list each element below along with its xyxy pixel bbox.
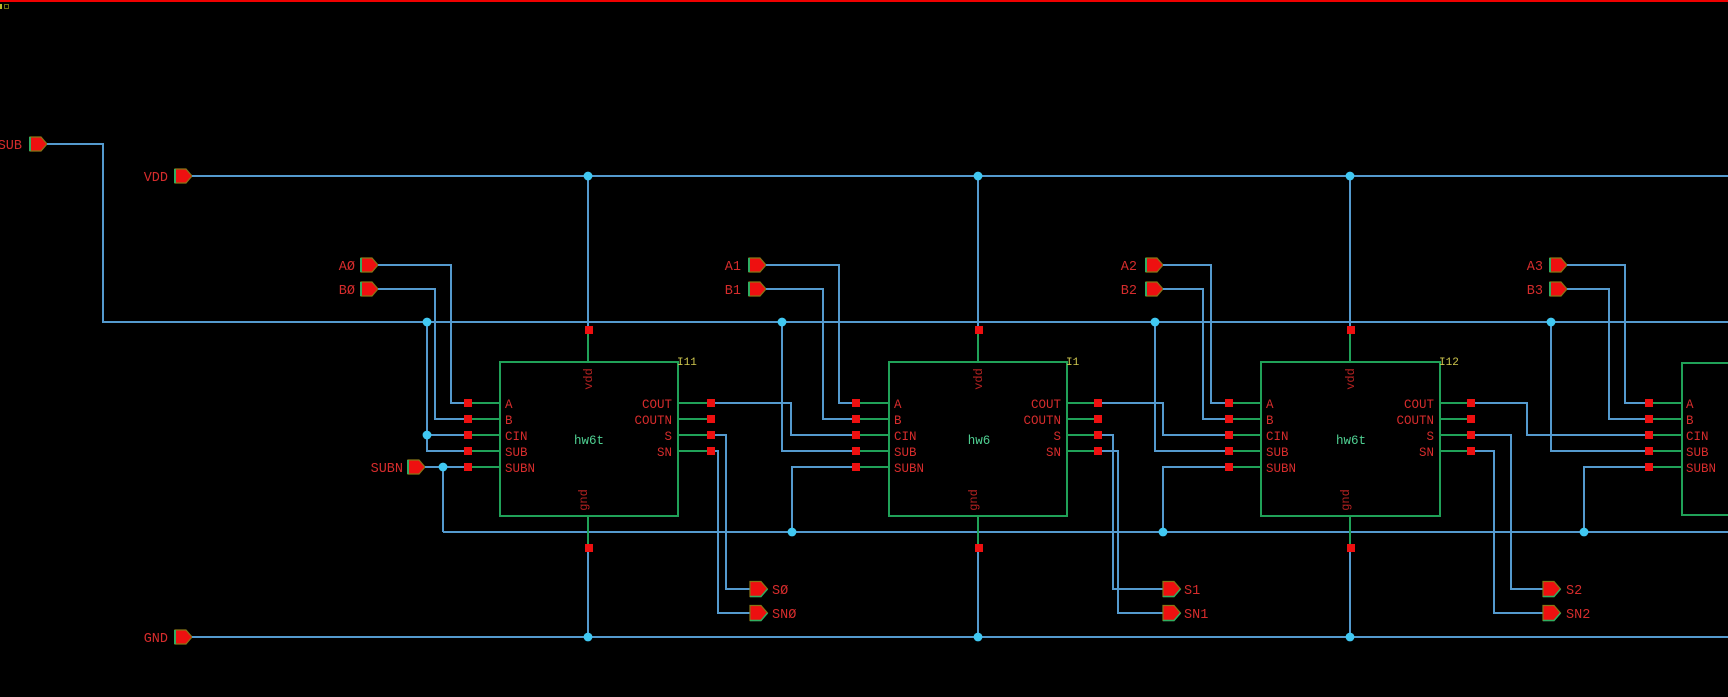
- wire net B2 to cell 3 pin B: [1163, 288, 1228, 420]
- svg-text:COUTN: COUTN: [1396, 414, 1434, 428]
- wire gnd of cell 3 to GND rail: [1349, 552, 1351, 637]
- wire SUB rail: [102, 321, 1728, 323]
- pin square vdd of I12: [1347, 326, 1355, 334]
- cell I11 (hw6t): [467, 334, 710, 545]
- svg-text:gnd: gnd: [1339, 489, 1353, 511]
- svg-text:S: S: [1426, 430, 1434, 444]
- svg-text:COUT: COUT: [642, 398, 673, 412]
- input port AØ: [339, 258, 378, 275]
- wire net A2 to cell 3 pin A: [1163, 264, 1228, 404]
- pin squares A,B,CIN,SUB,SUBN of I13: [1645, 399, 1653, 471]
- svg-text:vdd: vdd: [972, 368, 986, 390]
- instance label I11: [677, 357, 697, 369]
- svg-text:SN1: SN1: [1184, 608, 1208, 623]
- svg-text:A3: A3: [1527, 260, 1543, 275]
- svg-text:I11: I11: [677, 357, 697, 369]
- pin squares COUT,COUTN,S,SN of I1: [1094, 399, 1102, 455]
- svg-text:CIN: CIN: [894, 430, 917, 444]
- junction on GND rail cell 3: [1346, 633, 1355, 642]
- junction on SUB rail cell 3: [1151, 318, 1160, 327]
- pin square vdd of I11: [585, 326, 593, 334]
- wire SUBN rail to cell 4 pin SUBN: [1583, 466, 1648, 533]
- svg-text:COUTN: COUTN: [1023, 414, 1061, 428]
- junction on VDD rail cell 2: [974, 172, 983, 181]
- junction on SUB rail cell 4: [1547, 318, 1556, 327]
- input port B1: [725, 282, 766, 299]
- svg-text:vdd: vdd: [582, 368, 596, 390]
- wire SUB rail to cell 3 pin SUB: [1154, 321, 1228, 452]
- svg-text:COUT: COUT: [1031, 398, 1062, 412]
- svg-text:vdd: vdd: [1344, 368, 1358, 390]
- svg-text:COUTN: COUTN: [634, 414, 672, 428]
- pin squares A,B,CIN,SUB,SUBN of I1: [852, 399, 860, 471]
- pin labels of I1: [894, 368, 1061, 511]
- port VDD: [144, 169, 192, 186]
- svg-text:hw6t: hw6t: [574, 434, 604, 448]
- svg-text:SNØ: SNØ: [772, 608, 796, 623]
- wire SUBN port to cell 1 pin SUBN: [426, 466, 467, 468]
- svg-text:SN: SN: [1419, 446, 1434, 460]
- svg-text:SØ: SØ: [772, 584, 788, 599]
- pin square gnd of I11: [585, 544, 593, 552]
- wire SN of cell 3 to port SN2: [1470, 450, 1543, 614]
- wire COUT I12 to CIN I13: [1474, 402, 1648, 436]
- svg-text:hw6t: hw6t: [1336, 434, 1366, 448]
- svg-text:A2: A2: [1121, 260, 1137, 275]
- wire S of cell 2 to port S1: [1097, 434, 1163, 590]
- wire gnd of cell 1 to GND rail: [587, 552, 589, 637]
- wire SUB rail to cell 1 pin SUB: [426, 321, 467, 452]
- wire net A3 to cell 4 pin A: [1567, 264, 1648, 404]
- svg-text:CIN: CIN: [505, 430, 528, 444]
- svg-text:COUT: COUT: [1404, 398, 1435, 412]
- svg-text:A: A: [1266, 398, 1274, 412]
- svg-text:S1: S1: [1184, 584, 1200, 599]
- junction on SUBN rail cell 4: [1580, 528, 1589, 537]
- pin square gnd of I12: [1347, 544, 1355, 552]
- wire SUBN rail: [443, 531, 1728, 533]
- wire GND rail: [192, 636, 1728, 638]
- svg-text:B3: B3: [1527, 284, 1543, 299]
- svg-text:A: A: [505, 398, 513, 412]
- wire net B0 to cell 1 pin B: [378, 288, 467, 420]
- input port B2: [1121, 282, 1163, 299]
- svg-text:CIN: CIN: [1686, 430, 1709, 444]
- junction on GND rail cell 2: [974, 633, 983, 642]
- wire SUBN rail to cell 3 pin SUBN: [1162, 466, 1228, 533]
- cell I13 (hw6): [1648, 363, 1728, 515]
- svg-text:gnd: gnd: [577, 489, 591, 511]
- svg-text:SUB: SUB: [894, 446, 917, 460]
- svg-text:BØ: BØ: [339, 284, 355, 299]
- pin squares COUT,COUTN,S,SN of I12: [1467, 399, 1475, 455]
- svg-text:AØ: AØ: [339, 260, 355, 275]
- junction on GND rail cell 1: [584, 633, 593, 642]
- svg-text:SUBN: SUBN: [505, 462, 535, 476]
- wire vdd of cell 2 to VDD rail: [977, 176, 979, 326]
- wire gnd of cell 2 to GND rail: [977, 552, 979, 637]
- input port A3: [1527, 258, 1567, 275]
- junction on VDD rail cell 1: [584, 172, 593, 181]
- svg-text:B: B: [1686, 414, 1694, 428]
- output port SØ: [750, 582, 788, 600]
- svg-text:SN: SN: [1046, 446, 1061, 460]
- svg-text:B2: B2: [1121, 284, 1137, 299]
- wire S of cell 1 to port SØ: [710, 434, 750, 590]
- junction at CIN tap cell 1: [423, 431, 432, 440]
- port GND: [144, 630, 192, 647]
- pin square gnd of I1: [975, 544, 983, 552]
- pin square vdd of I1: [975, 326, 983, 334]
- wire vdd of cell 1 to VDD rail: [587, 176, 589, 326]
- pin squares A,B,CIN,SUB,SUBN of I11: [464, 399, 472, 471]
- pin squares A,B,CIN,SUB,SUBN of I12: [1225, 399, 1233, 471]
- svg-text:A1: A1: [725, 260, 741, 275]
- svg-text:SN: SN: [657, 446, 672, 460]
- svg-text:GND: GND: [144, 632, 168, 647]
- wire net B3 to cell 4 pin B: [1567, 288, 1648, 420]
- svg-text:SUBN: SUBN: [1686, 462, 1716, 476]
- svg-text:B1: B1: [725, 284, 741, 299]
- junction on SUB rail cell 1: [423, 318, 432, 327]
- svg-text:CIN: CIN: [1266, 430, 1289, 444]
- wire SUBN net (port to rail): [425, 466, 464, 532]
- port SUB: [0, 137, 47, 154]
- wire COUT I11 to CIN I1: [714, 402, 855, 436]
- input port B3: [1527, 282, 1567, 299]
- svg-text:I12: I12: [1439, 357, 1459, 369]
- instance label I12: [1439, 357, 1459, 369]
- wire vdd of cell 3 to VDD rail: [1349, 176, 1351, 326]
- svg-text:hw6: hw6: [968, 434, 991, 448]
- svg-text:B: B: [505, 414, 513, 428]
- svg-text:SUBN: SUBN: [371, 462, 403, 477]
- wire net A1 to cell 2 pin A: [766, 264, 855, 404]
- svg-text:S: S: [1053, 430, 1061, 444]
- svg-text:I1: I1: [1066, 357, 1080, 369]
- output port SN2: [1543, 606, 1590, 624]
- svg-text:SUBN: SUBN: [1266, 462, 1296, 476]
- junction on VDD rail cell 3: [1346, 172, 1355, 181]
- output port SN1: [1163, 606, 1208, 624]
- junction on SUB rail cell 2: [778, 318, 787, 327]
- cell I1 (hw6): [855, 334, 1097, 545]
- pin squares COUT,COUTN,S,SN of I11: [707, 399, 715, 455]
- svg-text:B: B: [894, 414, 902, 428]
- svg-text:B: B: [1266, 414, 1274, 428]
- input port BØ: [339, 282, 378, 299]
- wire SN of cell 1 to port SNØ: [710, 450, 750, 614]
- instance label I1: [1066, 357, 1080, 369]
- wire COUT I1 to CIN I12: [1101, 402, 1228, 436]
- svg-text:SUB: SUB: [505, 446, 528, 460]
- svg-text:VDD: VDD: [144, 171, 168, 186]
- wire SN of cell 2 to port SN1: [1097, 450, 1163, 614]
- pin labels of I12: [1266, 368, 1434, 511]
- pin labels of I11: [505, 368, 672, 511]
- output port S1: [1163, 582, 1200, 600]
- wire node to cell 1 pin CIN: [426, 434, 467, 436]
- junction on SUBN rail cell 3: [1159, 528, 1168, 537]
- svg-text:SN2: SN2: [1566, 608, 1590, 623]
- svg-text:S: S: [664, 430, 672, 444]
- svg-text:SUB: SUB: [0, 139, 22, 154]
- sheet marker: [0, 4, 9, 9]
- port SUBN: [371, 460, 425, 477]
- wire net B1 to cell 2 pin B: [766, 288, 855, 420]
- junction on SUBN rail cell 2: [788, 528, 797, 537]
- output port S2: [1543, 582, 1582, 600]
- wire S of cell 3 to port S2: [1470, 434, 1543, 590]
- wire SUB net (from port to rail): [47, 143, 104, 322]
- wire net A0 to cell 1 pin A: [378, 264, 467, 404]
- svg-text:SUB: SUB: [1266, 446, 1289, 460]
- wire SUBN rail to cell 2 pin SUBN: [791, 466, 855, 533]
- junction SUBN tap cell 1: [439, 463, 448, 472]
- wire SUB rail to cell 4 pin SUB: [1550, 321, 1648, 452]
- input port A1: [725, 258, 766, 275]
- svg-text:A: A: [894, 398, 902, 412]
- svg-text:SUBN: SUBN: [894, 462, 924, 476]
- pin labels of I13: [1686, 398, 1716, 476]
- title bar: [0, 0, 1728, 2]
- svg-text:S2: S2: [1566, 584, 1582, 599]
- wire SUB rail to cell 2 pin SUB: [781, 321, 855, 452]
- input port A2: [1121, 258, 1163, 275]
- svg-text:SUB: SUB: [1686, 446, 1709, 460]
- output port SNØ: [750, 606, 796, 624]
- svg-text:gnd: gnd: [967, 489, 981, 511]
- wire VDD rail: [192, 175, 1728, 177]
- cell I12 (hw6t): [1228, 334, 1470, 545]
- svg-text:A: A: [1686, 398, 1694, 412]
